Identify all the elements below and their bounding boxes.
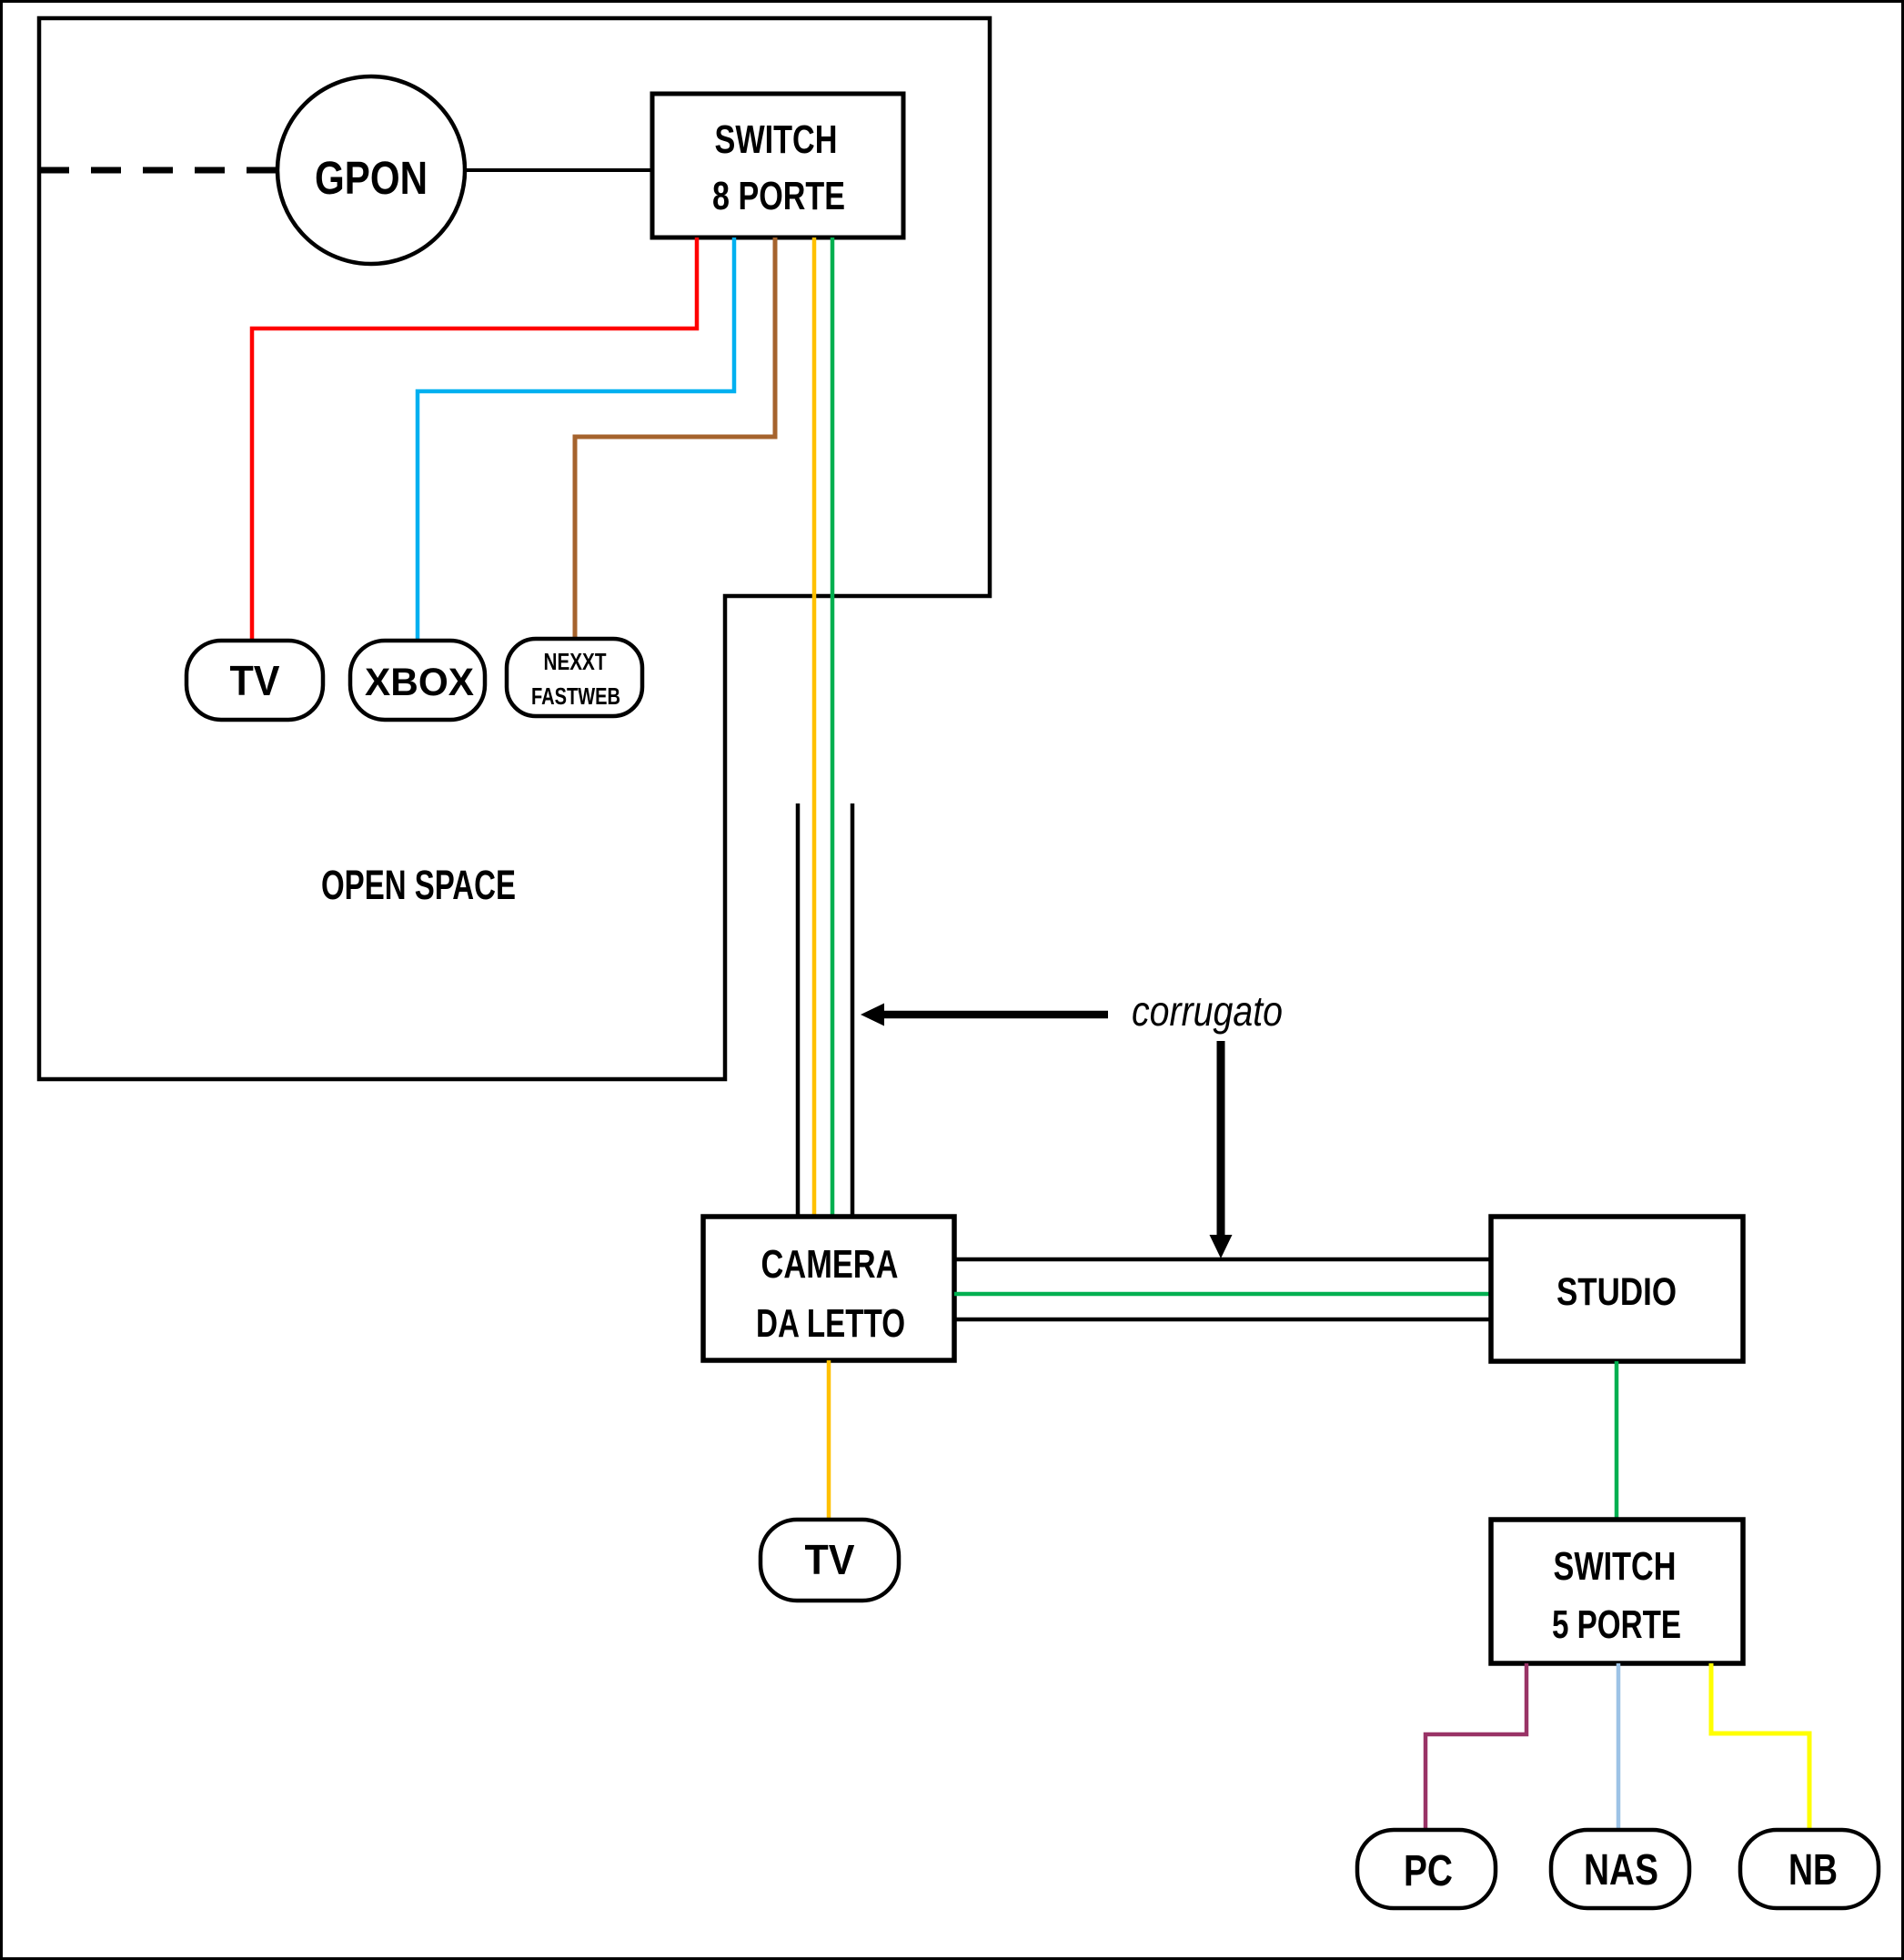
wire brown SWITCH to NEXXT FASTWEB — [575, 237, 775, 638]
svg-text:TV: TV — [805, 1536, 855, 1583]
wire lightblue SWITCH5 to NAS — [1617, 1663, 1621, 1830]
svg-text:NAS: NAS — [1584, 1846, 1658, 1894]
svg-text:FASTWEB: FASTWEB — [531, 682, 620, 710]
node TV (open space) — [186, 641, 323, 720]
node NEXXT FASTWEB — [507, 639, 642, 716]
arrow to vertical conduit — [883, 1011, 1108, 1019]
box STUDIO — [1491, 1217, 1743, 1361]
svg-text:PC: PC — [1404, 1847, 1453, 1895]
node GPON circle — [277, 76, 465, 264]
svg-text:TV: TV — [230, 657, 280, 704]
svg-text:STUDIO: STUDIO — [1556, 1270, 1677, 1314]
room outline OPEN SPACE polygon — [39, 18, 990, 1079]
svg-text:OPEN SPACE: OPEN SPACE — [321, 862, 516, 908]
svg-text:NB: NB — [1788, 1846, 1838, 1894]
arrow to horizontal conduit — [1217, 1041, 1225, 1236]
svg-text:NEXXT: NEXXT — [544, 648, 607, 675]
wire orange SWITCH to CAMERA DA LETTO — [812, 237, 817, 1217]
conduit corrugato vertical wall right — [851, 803, 855, 1217]
node NAS — [1551, 1830, 1689, 1908]
svg-text:SWITCH: SWITCH — [715, 117, 838, 162]
wire green CAMERA to STUDIO — [954, 1292, 1491, 1297]
svg-text:corrugato: corrugato — [1132, 987, 1283, 1035]
svg-text:XBOX: XBOX — [365, 661, 474, 704]
box SWITCH 8 PORTE — [652, 94, 903, 237]
svg-text:GPON: GPON — [315, 152, 428, 204]
wire GPON to SWITCH 8 PORTE — [463, 168, 652, 172]
wire orange CAMERA to TV bedroom — [827, 1360, 831, 1521]
node PC — [1357, 1830, 1496, 1908]
box SWITCH 5 PORTE — [1491, 1520, 1743, 1663]
svg-text:CAMERA: CAMERA — [761, 1242, 899, 1287]
conduit corrugato vertical wall left — [796, 803, 801, 1217]
wire purple SWITCH5 to PC — [1425, 1663, 1526, 1830]
wire yellow SWITCH5 to NB — [1711, 1663, 1809, 1830]
wire green SWITCH to CAMERA DA LETTO — [831, 237, 835, 1217]
svg-text:SWITCH: SWITCH — [1554, 1544, 1677, 1589]
dashed incoming fiber line — [39, 167, 281, 174]
box CAMERA DA LETTO — [703, 1217, 954, 1360]
conduit corrugato horizontal wall top — [954, 1258, 1491, 1262]
wire blue SWITCH to XBOX — [418, 237, 734, 641]
node TV (bedroom) — [761, 1520, 899, 1601]
svg-text:5 PORTE: 5 PORTE — [1552, 1602, 1681, 1647]
svg-text:DA LETTO: DA LETTO — [756, 1301, 905, 1346]
conduit corrugato horizontal wall bottom — [954, 1318, 1491, 1322]
wire green STUDIO to SWITCH 5 PORTE — [1615, 1361, 1619, 1520]
node XBOX — [350, 641, 485, 720]
wire red SWITCH to TV — [252, 237, 697, 641]
svg-text:8 PORTE: 8 PORTE — [712, 174, 845, 218]
node NB — [1740, 1830, 1879, 1908]
